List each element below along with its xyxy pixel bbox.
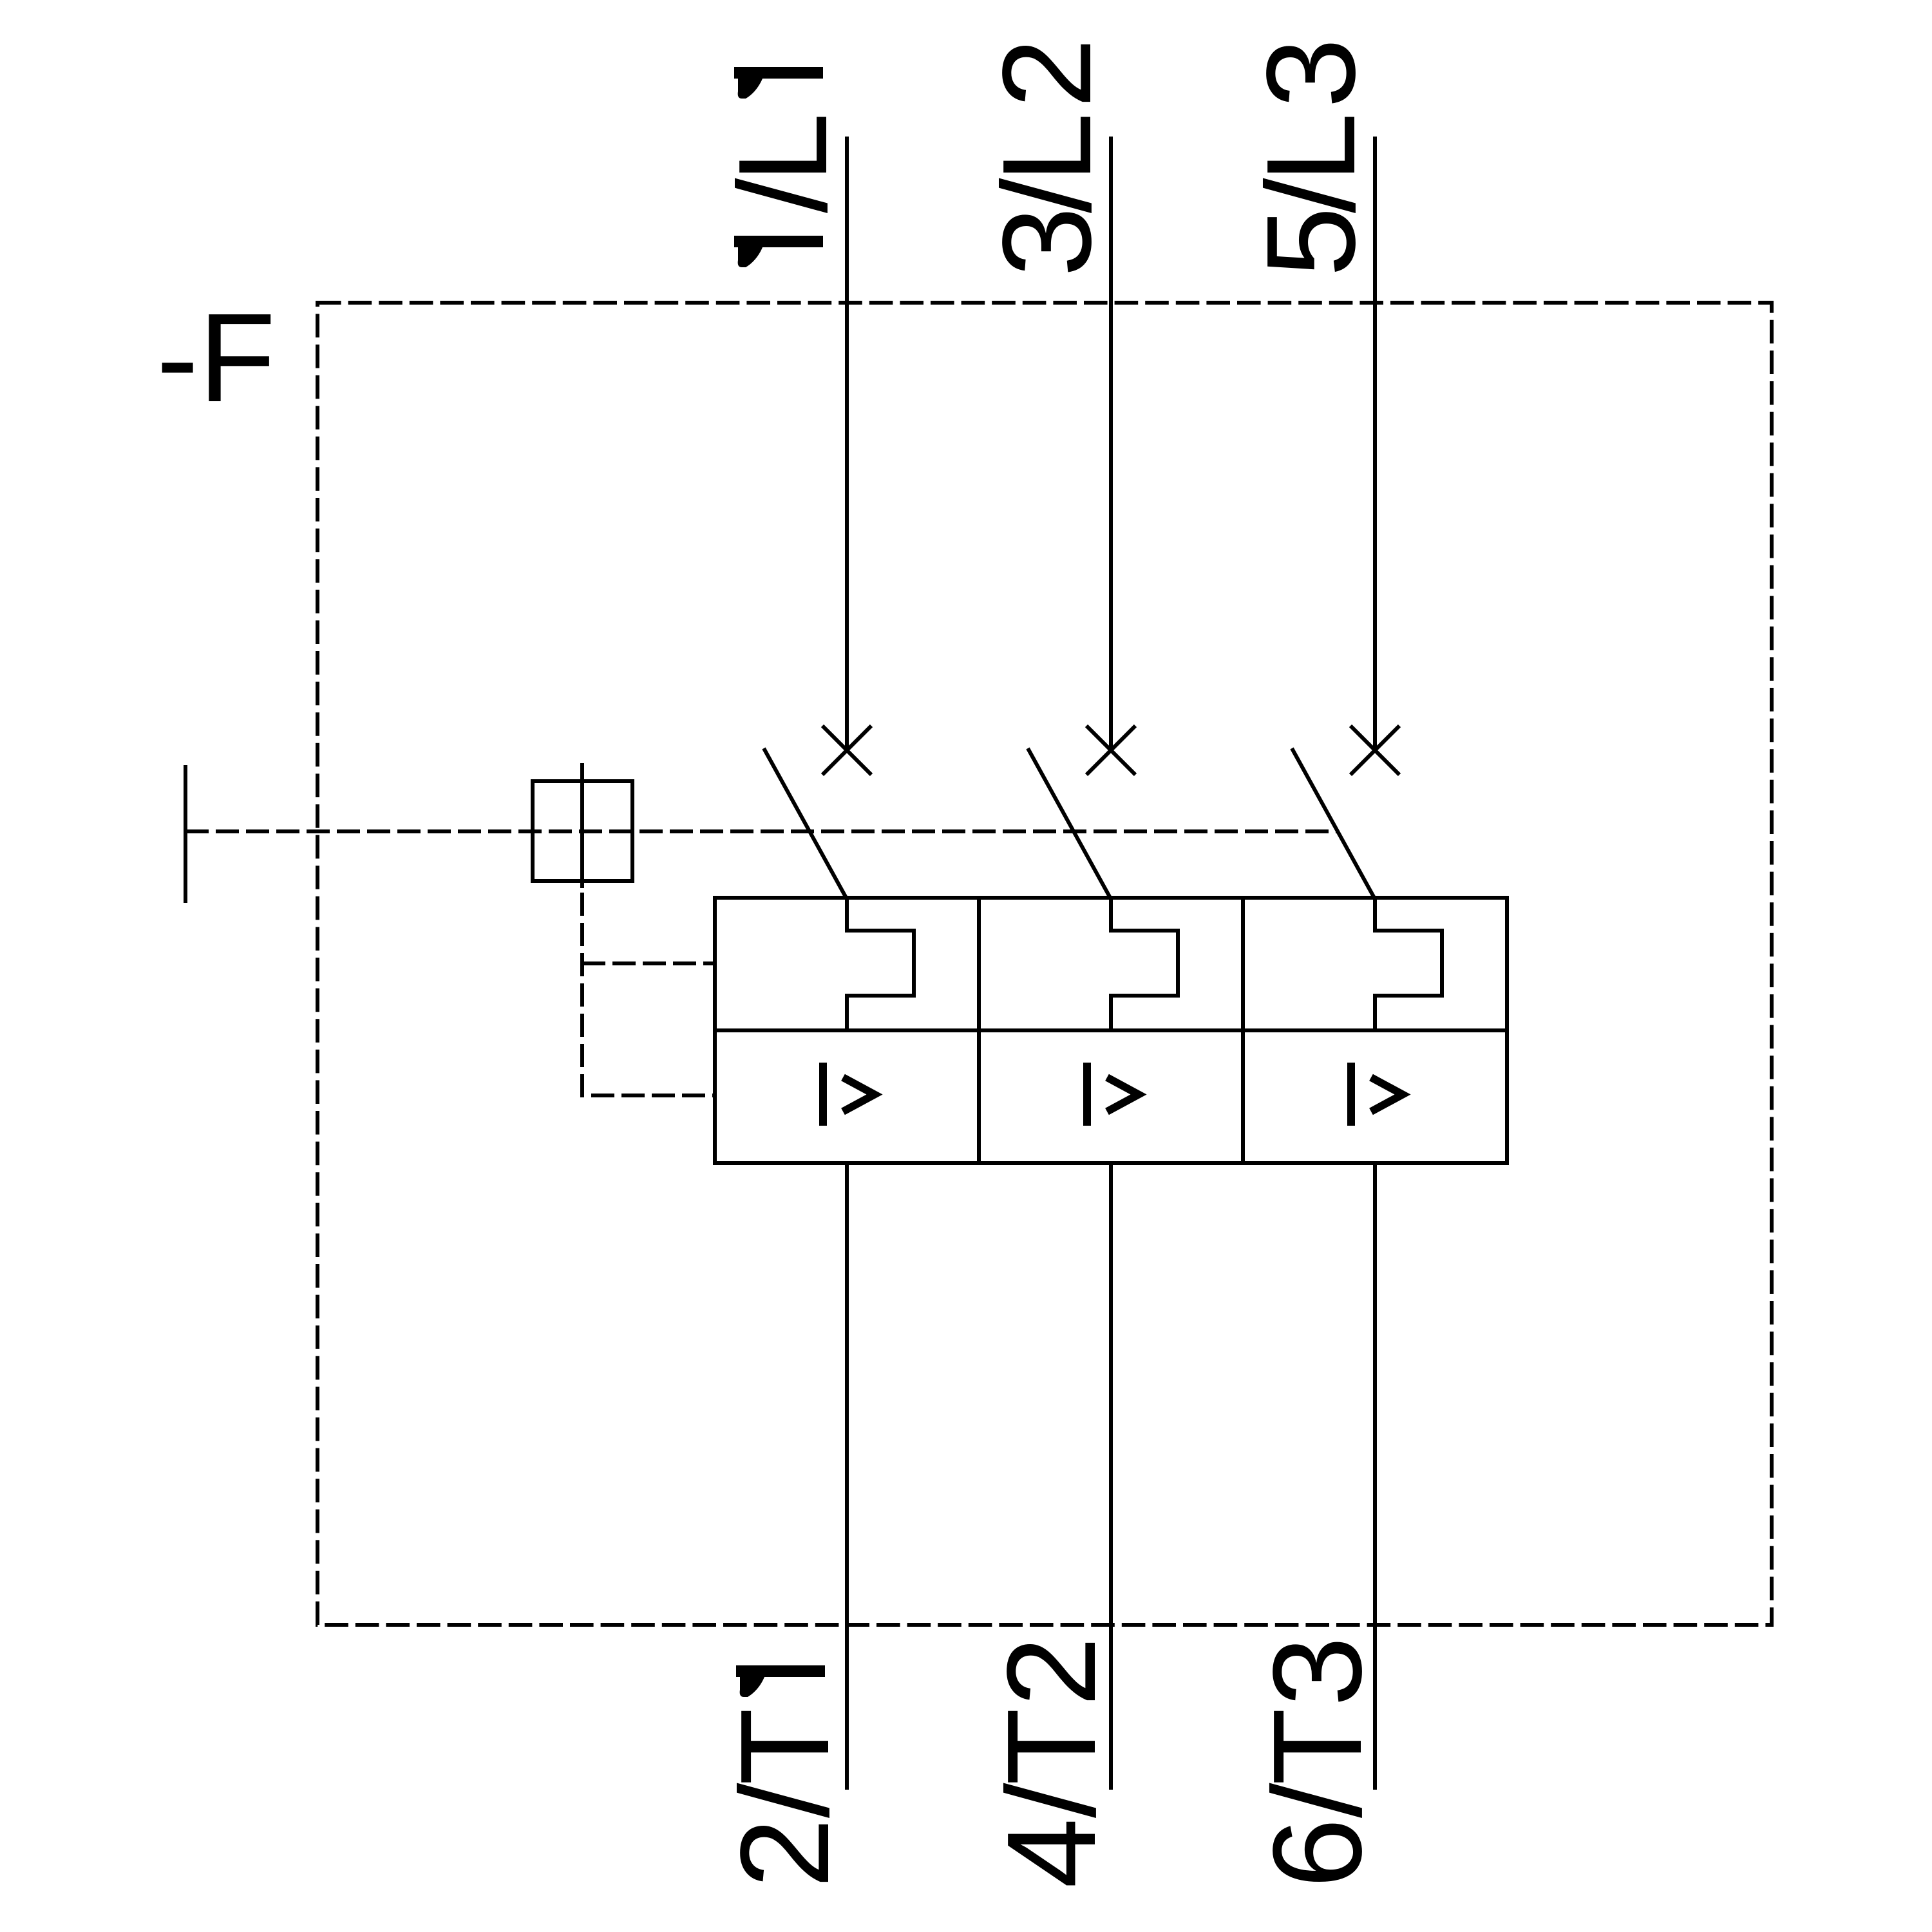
trip linkage dashed branch to thermal release row bbox=[582, 961, 715, 965]
switch blade (moving contact), pole 1 bbox=[764, 748, 847, 899]
wire 5/L3 (top lead, pole 3) bbox=[1373, 137, 1377, 749]
circuit breaker F1 dashed boundary box bbox=[317, 303, 1772, 1625]
magnetic overcurrent release symbol I>, pole 3 bbox=[1351, 1063, 1403, 1126]
release block pole divider 1-2 bbox=[977, 898, 981, 1163]
release block outline bbox=[715, 898, 1507, 1163]
manual operator end tick bbox=[184, 765, 187, 903]
switch blade (moving contact), pole 3 bbox=[1292, 748, 1375, 899]
svg-text:6/T3: 6/T3 bbox=[1247, 1636, 1388, 1888]
operating mechanism square bbox=[533, 781, 632, 881]
svg-text:2/T: 2/T bbox=[714, 1708, 855, 1888]
wire 6/T3 (bottom lead, pole 3) bbox=[1373, 1163, 1377, 1790]
svg-text:-F: -F bbox=[156, 287, 276, 428]
fixed contact cross, pole 3 bbox=[1350, 726, 1399, 775]
svg-text:/L: /L bbox=[712, 113, 853, 213]
switch blade (moving contact), pole 2 bbox=[1028, 748, 1111, 899]
svg-text:4/T2: 4/T2 bbox=[981, 1636, 1122, 1888]
thermal overload release, pole 1 bbox=[847, 898, 914, 1030]
wire 2/T1 (bottom lead, pole 1) bbox=[845, 1163, 849, 1790]
thermal overload release, pole 2 bbox=[1111, 898, 1178, 1030]
fixed contact cross, pole 1 bbox=[822, 726, 871, 775]
thermal overload release, pole 3 bbox=[1375, 898, 1442, 1030]
svg-text:5/L3: 5/L3 bbox=[1240, 38, 1381, 277]
magnetic overcurrent release symbol I>, pole 1 bbox=[823, 1063, 875, 1126]
fixed contact cross, pole 2 bbox=[1086, 726, 1135, 775]
magnetic overcurrent release symbol I>, pole 2 bbox=[1087, 1063, 1139, 1126]
wire 1/L1 (top lead, pole 1) bbox=[845, 137, 849, 749]
mechanical linkage dashed line (trip bar) bbox=[185, 829, 1339, 833]
release block divider between thermal and magnetic rows bbox=[715, 1028, 1507, 1032]
trip linkage dashed vertical from mechanism bbox=[582, 888, 715, 1095]
operating mechanism vertical stem bbox=[580, 763, 584, 888]
wire 4/T2 (bottom lead, pole 2) bbox=[1109, 1163, 1113, 1790]
wire 3/L2 (top lead, pole 2) bbox=[1109, 137, 1113, 749]
svg-text:3/L2: 3/L2 bbox=[976, 38, 1117, 277]
release block pole divider 2-3 bbox=[1241, 898, 1245, 1163]
